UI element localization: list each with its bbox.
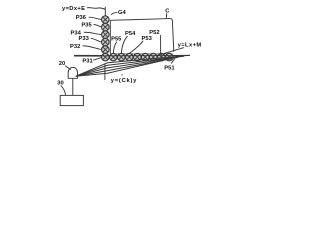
thick left portion of axis line [74, 55, 103, 57]
lens P35 [102, 23, 110, 31]
horizontal row lens 3 [126, 53, 134, 61]
leader P51 [171, 59, 175, 64]
axis line overlay across lens row [102, 54, 190, 57]
svg-text:P31: P31 [82, 58, 93, 64]
svg-text:P35: P35 [81, 22, 92, 28]
leader P32 [83, 46, 102, 50]
svg-text:y=(Ck)y: y=(Ck)y [111, 78, 137, 84]
label 30 [57, 81, 63, 87]
leader P36 [89, 17, 102, 19]
leader y=(Ck)y vertical [104, 64, 106, 80]
svg-text:C: C [165, 9, 170, 15]
ray 1 from source bending at column to focus [76, 55, 190, 76]
vertical axis line segment above chain [104, 7, 106, 16]
label P34 [71, 30, 82, 36]
label P31 [82, 58, 93, 64]
leader P35 [94, 24, 102, 27]
label y=Dx+E [62, 6, 85, 12]
leader P53 [130, 41, 144, 54]
lens P34 [102, 31, 110, 39]
svg-text:y=Dx+E: y=Dx+E [62, 6, 85, 12]
horizontal row lens 6 [150, 53, 158, 61]
leader from C to rect top [165, 13, 168, 18]
box 30 [60, 95, 83, 105]
horizontal row lens 4 [134, 53, 142, 61]
label P33 [79, 36, 90, 42]
leader y=Lx+M [160, 48, 184, 55]
corner lens P31 [102, 53, 110, 61]
leader P52 [160, 35, 162, 53]
horizontal row lens 8 [166, 53, 174, 61]
horizontal row lens 5 [142, 53, 150, 61]
label P35 [81, 22, 92, 28]
rect C bottom edge [110, 53, 172, 55]
ray 5 [76, 60, 164, 76]
leader P54 [121, 36, 127, 53]
svg-text:G4: G4 [118, 10, 127, 16]
label G4 [118, 10, 127, 16]
label P52 [149, 30, 159, 36]
lens P36 [102, 16, 110, 24]
ray 4 [76, 59, 171, 76]
label P32 [70, 44, 80, 50]
horizontal row lens 1 [110, 53, 118, 61]
svg-text:y=Lx+M: y=Lx+M [178, 42, 202, 48]
ray 3 [76, 57, 178, 76]
leader P31 [93, 58, 101, 61]
label P51 [164, 66, 175, 72]
label y=Lx+M [178, 42, 202, 48]
leader from 30 to box [61, 85, 66, 95]
label 20 [59, 61, 65, 67]
lens P32 [102, 46, 110, 54]
horizontal axis line y=Lx+M [74, 54, 190, 56]
horizontal row lens 2 [118, 53, 126, 61]
label P55 [111, 37, 122, 43]
rectangle region C [110, 19, 174, 54]
horizontal row lens 7 [158, 53, 166, 61]
leader from y=Dx+E to vertical axis [87, 8, 105, 10]
svg-text:P32: P32 [70, 44, 80, 50]
light source dome 20 [68, 67, 77, 78]
svg-text:P36: P36 [76, 15, 87, 21]
svg-text:P33: P33 [79, 36, 90, 42]
label P54 [125, 31, 136, 37]
leader from 20 to dome [65, 66, 71, 70]
svg-text:P51: P51 [164, 66, 175, 72]
label P53 [142, 36, 153, 42]
label C [165, 9, 170, 15]
leader P55 [113, 42, 116, 54]
leader P34 [84, 32, 102, 34]
leader P33 [91, 38, 102, 42]
label y=(Ck)y [111, 74, 137, 84]
leader from G4 [111, 12, 117, 15]
lens P33 [102, 38, 110, 46]
ray 2 [76, 56, 184, 76]
svg-text:P54: P54 [125, 31, 136, 37]
svg-text:20: 20 [59, 61, 65, 67]
label P36 [76, 15, 87, 21]
stem between dome and box [72, 78, 74, 95]
